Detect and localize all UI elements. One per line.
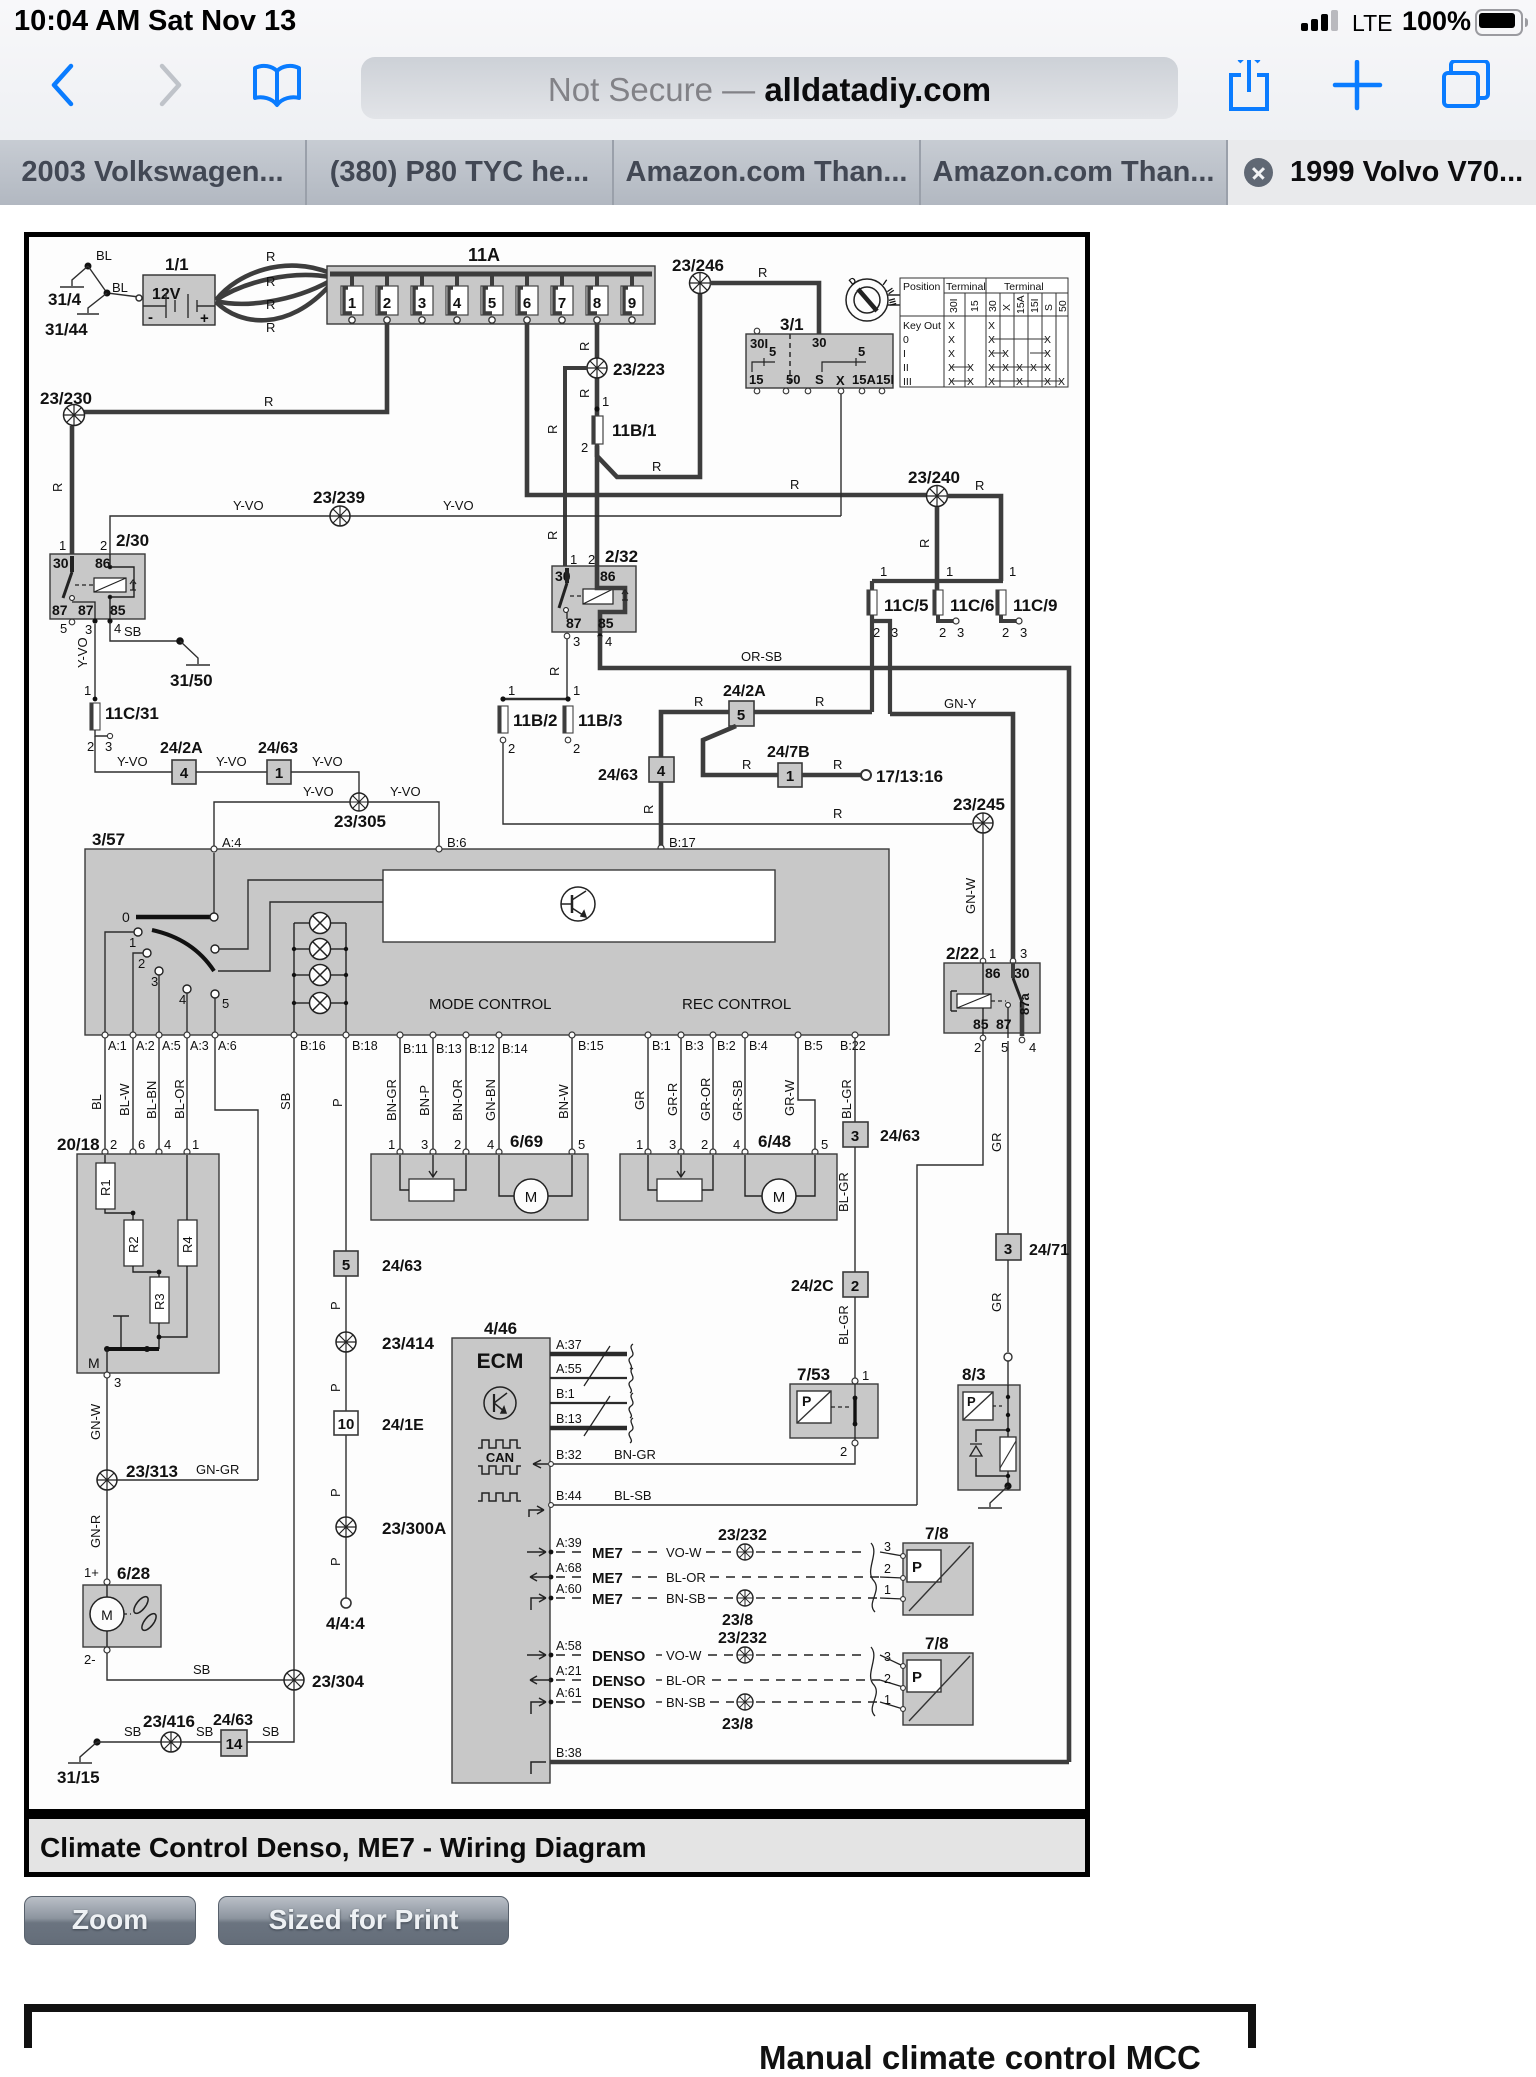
svg-text:3: 3 [1020,946,1027,961]
fuse 11C/9 [996,590,1006,615]
thermal link bar [107,1347,159,1351]
svg-text:15: 15 [969,300,981,312]
svg-text:1: 1 [636,1137,643,1152]
svg-text:R1: R1 [98,1179,113,1196]
svg-text:Y-VO: Y-VO [75,637,90,668]
svg-text:Y-VO: Y-VO [443,498,474,513]
svg-text:B:17: B:17 [669,835,696,850]
svg-text:1: 1 [602,394,609,409]
svg-text:B:11: B:11 [403,1042,428,1056]
svg-text:X: X [1044,348,1051,360]
svg-text:GR-W: GR-W [782,1079,797,1116]
svg-text:B:15: B:15 [578,1039,604,1053]
svg-text:24/63: 24/63 [880,1128,920,1145]
svg-text:1/1: 1/1 [165,255,189,274]
svg-text:1: 1 [59,538,66,553]
svg-text:R: R [545,531,560,540]
svg-text:87: 87 [52,602,68,618]
svg-text:2: 2 [939,625,946,640]
svg-text:BL-OR: BL-OR [666,1673,706,1688]
svg-text:GR-SB: GR-SB [730,1080,745,1121]
svg-text:7: 7 [558,295,566,312]
svg-text:1: 1 [275,765,283,782]
svg-text:Y-VO: Y-VO [312,754,343,769]
svg-text:5: 5 [737,707,745,724]
svg-text:24/2A: 24/2A [723,683,766,700]
svg-text:6: 6 [523,295,531,312]
svg-text:2/30: 2/30 [116,531,149,550]
svg-text:9: 9 [628,295,636,312]
svg-text:GN-W: GN-W [963,877,978,914]
svg-text:3: 3 [105,739,112,754]
svg-text:3: 3 [85,622,92,637]
svg-text:11A: 11A [468,245,500,265]
svg-text:86: 86 [600,568,616,584]
svg-text:A:6: A:6 [218,1039,237,1053]
svg-text:23/414: 23/414 [382,1334,435,1353]
svg-text:M: M [88,1355,100,1371]
svg-text:R: R [266,297,275,312]
thermistor [1000,1437,1016,1471]
svg-text:11C/31: 11C/31 [105,704,159,723]
svg-text:24/1E: 24/1E [382,1417,424,1434]
svg-text:M: M [773,1189,786,1206]
svg-text:24/2C: 24/2C [791,1278,834,1295]
svg-text:SB: SB [124,624,141,639]
svg-text:R: R [641,805,656,814]
svg-text:Key Out: Key Out [903,320,941,332]
svg-text:R: R [264,394,273,409]
svg-text:R: R [50,483,65,492]
svg-text:3: 3 [669,1137,676,1152]
fuse 11C/31 [90,703,100,730]
cable marker upper [871,1543,877,1612]
connector 23/245 [973,813,993,833]
svg-text:BL: BL [96,248,112,263]
svg-text:X: X [836,373,845,388]
svg-text:3: 3 [884,1540,891,1554]
svg-text:24/63: 24/63 [382,1258,422,1275]
CAN symbol [478,1440,521,1501]
svg-text:31/50: 31/50 [170,671,213,690]
svg-text:BL-OR: BL-OR [172,1079,187,1119]
potentiometer [657,1179,702,1201]
wire R run 11C/5 pin2 to 24/2A pin5 [754,710,872,715]
svg-text:R: R [790,477,799,492]
svg-text:1: 1 [786,768,794,785]
svg-text:2/22: 2/22 [946,944,979,963]
svg-text:3: 3 [573,634,580,649]
svg-text:31/44: 31/44 [45,320,88,339]
svg-text:23/232: 23/232 [718,1527,767,1544]
svg-text:X: X [1016,362,1023,374]
svg-text:5: 5 [488,295,496,312]
fuse 6 [516,274,538,323]
ground 31/44 [77,290,111,315]
svg-text:3: 3 [421,1137,428,1152]
lamp [310,913,331,934]
svg-text:P: P [967,1394,976,1409]
svg-text:11B/3: 11B/3 [578,711,622,730]
svg-text:VO-W: VO-W [666,1545,702,1560]
svg-text:86: 86 [985,965,1001,981]
svg-text:R: R [577,389,592,398]
svg-text:31/4: 31/4 [48,290,82,309]
resistor R3 [150,1277,169,1323]
svg-text:P: P [912,1669,922,1686]
svg-text:Y-VO: Y-VO [390,784,421,799]
ignition position table [900,278,1068,387]
svg-text:2-: 2- [84,1652,96,1667]
wire Y-VO chain to 24/2A [95,736,172,772]
svg-text:GR: GR [632,1091,647,1111]
svg-text:A:3: A:3 [190,1039,209,1053]
svg-text:X: X [988,348,995,360]
svg-text:X: X [988,320,995,332]
svg-text:5: 5 [60,621,67,636]
terminal 17/13:16 [861,770,871,780]
svg-text:30I: 30I [750,336,768,351]
svg-text:4: 4 [487,1137,494,1152]
connector 24/63 pin5 [334,1251,358,1276]
ignition key symbol [846,279,900,321]
svg-text:P: P [912,1559,922,1576]
resistor R1 [96,1163,115,1209]
svg-text:A:5: A:5 [162,1039,181,1053]
svg-text:23/240: 23/240 [908,468,960,487]
svg-text:P: P [328,1557,343,1566]
svg-text:BN-OR: BN-OR [450,1079,465,1121]
fuse 11C/5 [867,590,877,615]
svg-text:15I: 15I [876,372,894,387]
wire fuse2 to 23/230 [84,323,387,412]
svg-text:85: 85 [973,1016,989,1032]
fuse 7 [551,274,573,323]
svg-text:3: 3 [957,625,964,640]
svg-text:DENSO: DENSO [592,1648,646,1665]
svg-text:2: 2 [454,1137,461,1152]
svg-text:R: R [545,425,560,434]
svg-text:1: 1 [884,1693,891,1707]
svg-text:DENSO: DENSO [592,1695,646,1712]
svg-text:MODE CONTROL: MODE CONTROL [429,996,552,1013]
svg-text:2: 2 [840,1444,847,1459]
motor M [762,1179,796,1213]
wire 24/2A pin5 to 24/7B [703,726,778,775]
svg-text:1: 1 [192,1137,199,1152]
wire 11C/5 pin3 (GN-Y) [872,621,890,714]
svg-text:1: 1 [989,946,996,961]
svg-text:23/230: 23/230 [40,389,92,408]
svg-text:5: 5 [769,344,776,359]
connector 23/230 [64,405,85,426]
svg-text:2: 2 [701,1137,708,1152]
svg-text:2: 2 [884,1672,891,1686]
svg-text:X: X [967,362,974,374]
svg-text:OR-SB: OR-SB [741,649,782,664]
svg-text:Y-VO: Y-VO [303,784,334,799]
svg-text:P: P [328,1383,343,1392]
svg-text:B:16: B:16 [300,1039,326,1053]
svg-text:BN-SB: BN-SB [666,1591,706,1606]
wires selector contacts to pins [105,932,134,1035]
svg-text:A:2: A:2 [136,1039,155,1053]
svg-text:3/1: 3/1 [780,315,804,334]
svg-text:2: 2 [573,741,580,756]
svg-text:P: P [802,1393,811,1409]
connector 24/1E pin10 [334,1411,358,1435]
connector 23/300A [336,1517,356,1537]
svg-text:4: 4 [453,295,462,312]
svg-text:X: X [988,376,995,388]
connector 23/414 [336,1332,356,1352]
svg-text:7/8: 7/8 [925,1524,949,1543]
svg-text:87: 87 [566,615,582,631]
svg-text:0: 0 [903,334,909,346]
svg-text:50: 50 [786,372,800,387]
svg-text:1: 1 [862,1368,869,1383]
connector 23/239 [330,506,350,526]
svg-text:7/53: 7/53 [797,1365,830,1384]
svg-text:SB: SB [278,1093,293,1110]
svg-text:2: 2 [138,956,145,971]
connector 23/223 [587,358,607,378]
svg-text:5: 5 [578,1137,585,1152]
svg-text:BL-SB: BL-SB [614,1488,652,1503]
svg-text:X: X [967,376,974,388]
wires 3/57 pins down [105,1038,855,1672]
wire 11C/5 pin2 down [870,615,874,712]
svg-text:1: 1 [388,1137,395,1152]
wire 3/1 X-terminal to Y-VO run [840,394,842,516]
svg-text:A:60: A:60 [556,1582,582,1596]
svg-text:R: R [652,459,661,474]
fuse 11B/2 [498,706,508,733]
svg-text:R: R [833,757,842,772]
svg-text:6/28: 6/28 [117,1564,150,1583]
svg-text:P: P [328,1301,343,1310]
svg-text:10: 10 [338,1416,355,1433]
svg-text:2: 2 [851,1278,859,1295]
svg-text:23/300A: 23/300A [382,1519,446,1538]
svg-text:23/305: 23/305 [334,812,386,831]
svg-text:1+: 1+ [84,1565,99,1580]
svg-text:4: 4 [657,763,666,780]
svg-text:87a: 87a [1017,993,1032,1015]
fuse 1 [341,274,363,323]
wire 2/22 pin5 GR down [1007,1041,1009,1234]
3/57 bottom pins [102,1032,858,1038]
svg-text:1: 1 [570,552,577,567]
wire 2/22 pin2 to ECM B:44 riser [917,1041,983,1505]
svg-text:ECM: ECM [477,1350,524,1373]
svg-text:GR: GR [989,1293,1004,1313]
display window [383,870,775,942]
wire [196,771,267,773]
svg-text:2: 2 [100,538,107,553]
svg-text:SB: SB [124,1724,141,1739]
fuse 11B/3 [563,706,573,733]
svg-text:2: 2 [974,1040,981,1055]
svg-text:B:2: B:2 [717,1039,736,1053]
svg-text:1: 1 [84,683,91,698]
svg-text:3: 3 [418,295,426,312]
ground 31/50 [180,641,210,665]
svg-text:24/63: 24/63 [213,1712,253,1729]
svg-text:Position: Position [903,281,941,293]
svg-text:GN-W: GN-W [88,1403,103,1440]
svg-text:B:1: B:1 [556,1387,575,1401]
svg-text:85: 85 [110,602,126,618]
connector 23/313 [97,1470,117,1490]
wire 23/223 to 2/32 pin30 [565,368,588,568]
wire OR-SB: 2/32 pin4 to right side down to B:38 [600,636,1069,1762]
wire Y-VO horizontal [110,516,841,554]
svg-text:A:1: A:1 [108,1039,127,1053]
svg-text:ME7: ME7 [592,1570,623,1587]
svg-text:GR-OR: GR-OR [698,1078,713,1121]
svg-text:-: - [148,309,153,326]
svg-text:BL-BN: BL-BN [144,1081,159,1119]
svg-text:2: 2 [508,741,515,756]
svg-text:BN-W: BN-W [556,1084,571,1119]
svg-text:SB: SB [196,1724,213,1739]
fuse 11C/6 [933,590,943,615]
svg-text:31/15: 31/15 [57,1768,100,1787]
svg-text:I: I [903,348,906,360]
svg-text:4: 4 [1029,1040,1036,1055]
svg-text:ME7: ME7 [592,1591,623,1608]
svg-text:S: S [1043,304,1055,311]
svg-text:B:1: B:1 [652,1039,671,1053]
wire colour labels [89,1078,854,1121]
svg-text:4: 4 [114,621,121,636]
svg-text:X: X [988,334,995,346]
resistor R4 [178,1220,197,1266]
wire GN-W 20/18 to 23/313 [106,1378,108,1480]
svg-text:87: 87 [78,602,94,618]
svg-text:Y-VO: Y-VO [216,754,247,769]
svg-text:A:4: A:4 [222,835,242,850]
svg-text:GR-R: GR-R [665,1083,680,1116]
svg-text:X: X [988,362,995,374]
svg-text:B:6: B:6 [447,835,467,850]
svg-text:X: X [948,376,955,388]
svg-text:24/2A: 24/2A [160,740,203,757]
svg-text:3: 3 [114,1375,121,1390]
svg-text:23/223: 23/223 [613,360,665,379]
svg-text:15I: 15I [1029,298,1041,313]
connector 23/304 [284,1670,304,1690]
svg-text:X: X [948,320,955,332]
svg-text:X: X [948,348,955,360]
wire 24/7B to 17/13:16 [802,773,861,778]
wire 11B/2 pin2 to 23/245 [503,743,972,824]
svg-text:R: R [975,478,984,493]
B:22 chain: connector 24/63 pin3 [843,1122,868,1147]
svg-text:87: 87 [996,1016,1012,1032]
svg-text:BN-P: BN-P [417,1085,432,1116]
svg-text:2: 2 [110,1137,117,1152]
svg-text:23/416: 23/416 [143,1712,195,1731]
wire 2/30 pin3 Y-VO down [94,624,96,700]
fuse 8 [586,274,608,323]
svg-text:3/57: 3/57 [92,830,125,849]
svg-text:S: S [815,372,824,387]
svg-text:8: 8 [593,295,601,312]
svg-text:Y-VO: Y-VO [233,498,264,513]
svg-text:B:38: B:38 [556,1746,582,1760]
svg-text:III: III [903,376,912,388]
diode [970,1444,982,1456]
wire GN-Y run to 2/22 pin3 [890,714,1013,960]
svg-text:SB: SB [193,1662,210,1677]
svg-text:B:32: B:32 [556,1448,582,1462]
ground 31/15 [68,1742,97,1763]
svg-text:X: X [1058,376,1065,388]
svg-text:11C/6: 11C/6 [950,596,994,615]
svg-text:4: 4 [605,634,612,649]
svg-text:4/46: 4/46 [484,1319,517,1338]
svg-text:4/4:4: 4/4:4 [326,1614,365,1633]
svg-text:11C/9: 11C/9 [1013,596,1057,615]
svg-text:15A: 15A [852,372,876,387]
svg-text:B:18: B:18 [352,1039,378,1053]
svg-text:A:55: A:55 [556,1362,582,1376]
svg-text:B:13: B:13 [436,1042,462,1056]
svg-text:23/246: 23/246 [672,256,724,275]
svg-text:1: 1 [946,564,953,579]
svg-text:X: X [1002,362,1009,374]
svg-text:4: 4 [179,992,186,1007]
svg-text:3: 3 [151,974,158,989]
svg-text:30: 30 [53,555,69,571]
bus 11B/2-11B/3 [503,698,568,700]
svg-text:X: X [1001,304,1013,311]
svg-text:R2: R2 [126,1236,141,1253]
svg-text:20/18: 20/18 [57,1135,100,1154]
svg-text:1: 1 [884,1583,891,1597]
svg-text:P: P [328,1488,343,1497]
svg-text:A:39: A:39 [556,1536,582,1550]
svg-text:R: R [577,342,592,351]
svg-text:R: R [917,539,932,548]
wire 23/230 to relay 2/30 [70,426,75,554]
svg-text:GR: GR [989,1133,1004,1153]
svg-text:A:68: A:68 [556,1561,582,1575]
connector 23/240 [927,486,948,507]
svg-text:M: M [525,1189,538,1206]
svg-text:24/7B: 24/7B [767,744,810,761]
svg-text:17/13:16: 17/13:16 [876,767,943,786]
svg-text:BL-W: BL-W [117,1083,132,1116]
wire BL-GR [854,1147,856,1272]
svg-text:X: X [1044,362,1051,374]
svg-text:15A: 15A [1015,295,1027,314]
wire fuse8 down [595,323,600,566]
lamp [310,965,331,986]
20/18 internal wiring [105,1155,187,1349]
svg-text:23/232: 23/232 [718,1630,767,1647]
svg-text:85: 85 [598,615,614,631]
svg-text:B:5: B:5 [804,1039,823,1053]
fuse 4 [446,274,468,323]
wire fuse6 to 23/240 [527,323,930,495]
transistor symbol [561,887,595,921]
svg-text:X: X [1044,376,1051,388]
svg-text:BL-GR: BL-GR [836,1172,851,1212]
svg-text:R: R [815,694,824,709]
